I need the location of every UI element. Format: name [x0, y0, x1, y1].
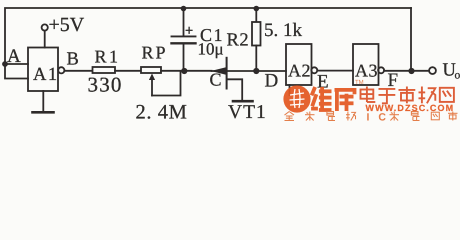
- svg-text:D: D: [265, 71, 279, 92]
- capacitor C1 top lead from +5V rail: [183, 8, 185, 36]
- resistor R2 top lead from +5V rail: [255, 8, 257, 22]
- svg-text:A1: A1: [33, 65, 59, 85]
- wire: RP to capacitor node junction: [161, 70, 212, 72]
- wire: +5V top supply rail: [5, 8, 411, 64]
- svg-text:F: F: [388, 70, 399, 91]
- svg-text:5. 1k: 5. 1k: [264, 20, 303, 41]
- wire: node B bubble to R1: [65, 70, 93, 72]
- node A junction dot: [2, 61, 8, 67]
- svg-text:A2: A2: [288, 61, 311, 81]
- wire: node E, A2 output to A3 input: [317, 70, 353, 72]
- node junction dot RP/C1: [181, 68, 187, 74]
- wire: R1 to RP: [115, 70, 141, 72]
- capacitor C1 bottom lead: [183, 45, 185, 72]
- transistor VT1 emitter arrowhead on node C wire: [211, 67, 226, 74]
- svg-text:R1: R1: [95, 47, 121, 67]
- wire: node D to gate A2 input: [256, 70, 286, 72]
- svg-text:A: A: [7, 46, 21, 67]
- wire: right rail from +5V bus down to output node: [410, 8, 412, 71]
- ground stub of A1: [42, 91, 44, 112]
- transistor VT1 collector bracket: [228, 79, 243, 100]
- svg-text:+5V: +5V: [49, 14, 85, 36]
- power terminal +5V circle: [42, 24, 48, 30]
- inverter gate A3 body: [353, 44, 379, 85]
- svg-text:A3: A3: [355, 61, 378, 81]
- watermark: dzsc.com logo and text (decorative): [283, 79, 457, 124]
- gate A3 output bubble: [378, 67, 384, 73]
- capacitor C1 bottom plate: [172, 42, 196, 44]
- svg-text:C: C: [210, 70, 222, 90]
- resistor R1 body: [93, 67, 116, 73]
- capacitor C1 top plate: [172, 35, 196, 37]
- ground bar under VT1: [233, 100, 253, 103]
- output terminal Uo circle: [429, 67, 436, 74]
- wire: node C through VT1 to node D: [212, 70, 257, 72]
- resistor R2 body (vertical): [252, 22, 261, 46]
- svg-text:2. 4M: 2. 4M: [136, 102, 188, 122]
- svg-text:B: B: [67, 50, 79, 70]
- svg-text:+: +: [185, 22, 193, 38]
- svg-text:o: o: [455, 70, 460, 82]
- wire: +5V terminal to A1 supply pin: [44, 31, 46, 48]
- wire: node A to A1 upper input pin: [5, 63, 28, 65]
- wire: node A down and to A1 lower input pin: [5, 64, 28, 79]
- resistor R2 bottom lead to node D: [255, 46, 257, 72]
- wire: RP wiper loop to C1 node: [152, 72, 181, 96]
- svg-text:VT1: VT1: [228, 102, 267, 121]
- svg-text:10μ: 10μ: [198, 40, 224, 59]
- svg-text:RP: RP: [142, 43, 168, 63]
- ground bar under A1: [33, 111, 54, 114]
- gate A2 output bubble: [311, 67, 317, 73]
- potentiometer RP wiper arrow: [149, 74, 155, 81]
- potentiometer RP body: [141, 67, 161, 73]
- transistor VT1 base bar: [226, 58, 228, 89]
- op-amp/IC A1 body: [28, 48, 58, 92]
- IC A1 output inversion bubble (node B): [58, 67, 64, 73]
- wire: node F, A3 output to output terminal: [384, 70, 429, 72]
- svg-text:R2: R2: [227, 31, 250, 51]
- inverter gate A2 body: [286, 44, 312, 85]
- svg-text:330: 330: [88, 73, 123, 97]
- output node junction dot: [408, 68, 414, 74]
- svg-text:IC: IC: [367, 112, 396, 122]
- node D junction dot: [253, 68, 259, 74]
- svg-text:TM: TM: [355, 79, 364, 86]
- ground stub of A2: [289, 85, 291, 95]
